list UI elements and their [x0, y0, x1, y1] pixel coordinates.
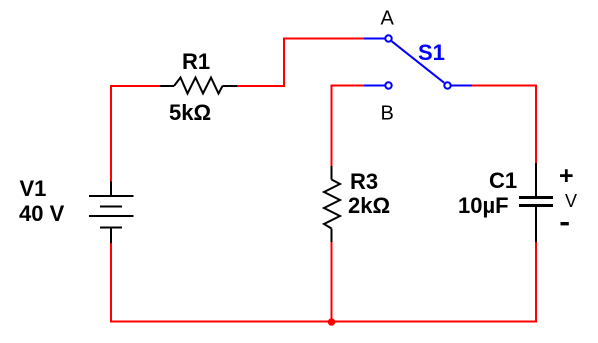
battery V1 — [89, 182, 134, 244]
wire bottom rail V1- to R3/C1 bottoms — [111, 242, 536, 322]
svg-text:A: A — [381, 8, 395, 30]
svg-text:V: V — [565, 191, 577, 211]
capacitor C1 — [519, 163, 553, 242]
svg-text:B: B — [381, 103, 394, 125]
junction at R3 bottom and ground rail — [328, 318, 335, 325]
svg-text:5kΩ: 5kΩ — [169, 100, 211, 125]
wire R1 right to switch node A (jog up) — [237, 39, 364, 87]
svg-text:+: + — [559, 162, 574, 190]
svg-text:C1: C1 — [489, 168, 517, 193]
wire switch common to C1 top (right vertical) — [472, 86, 536, 164]
svg-text:2kΩ: 2kΩ — [348, 193, 390, 218]
svg-text:40 V: 40 V — [19, 201, 65, 226]
svg-text:10µF: 10µF — [458, 193, 509, 218]
polarity minus — [561, 222, 569, 225]
svg-text:S1: S1 — [418, 40, 445, 65]
resistor R1 — [160, 78, 237, 94]
wire R3 bottom to ground rail — [331, 242, 333, 322]
svg-text:R3: R3 — [350, 169, 378, 194]
switch S1 — [364, 35, 472, 88]
wire node B branch to R3 top — [332, 86, 365, 167]
svg-text:V1: V1 — [20, 176, 47, 201]
resistor R3 — [324, 166, 340, 242]
svg-text:R1: R1 — [182, 49, 210, 74]
wire net V1+ to R1 left (left vertical and top-left corner) — [111, 86, 160, 182]
